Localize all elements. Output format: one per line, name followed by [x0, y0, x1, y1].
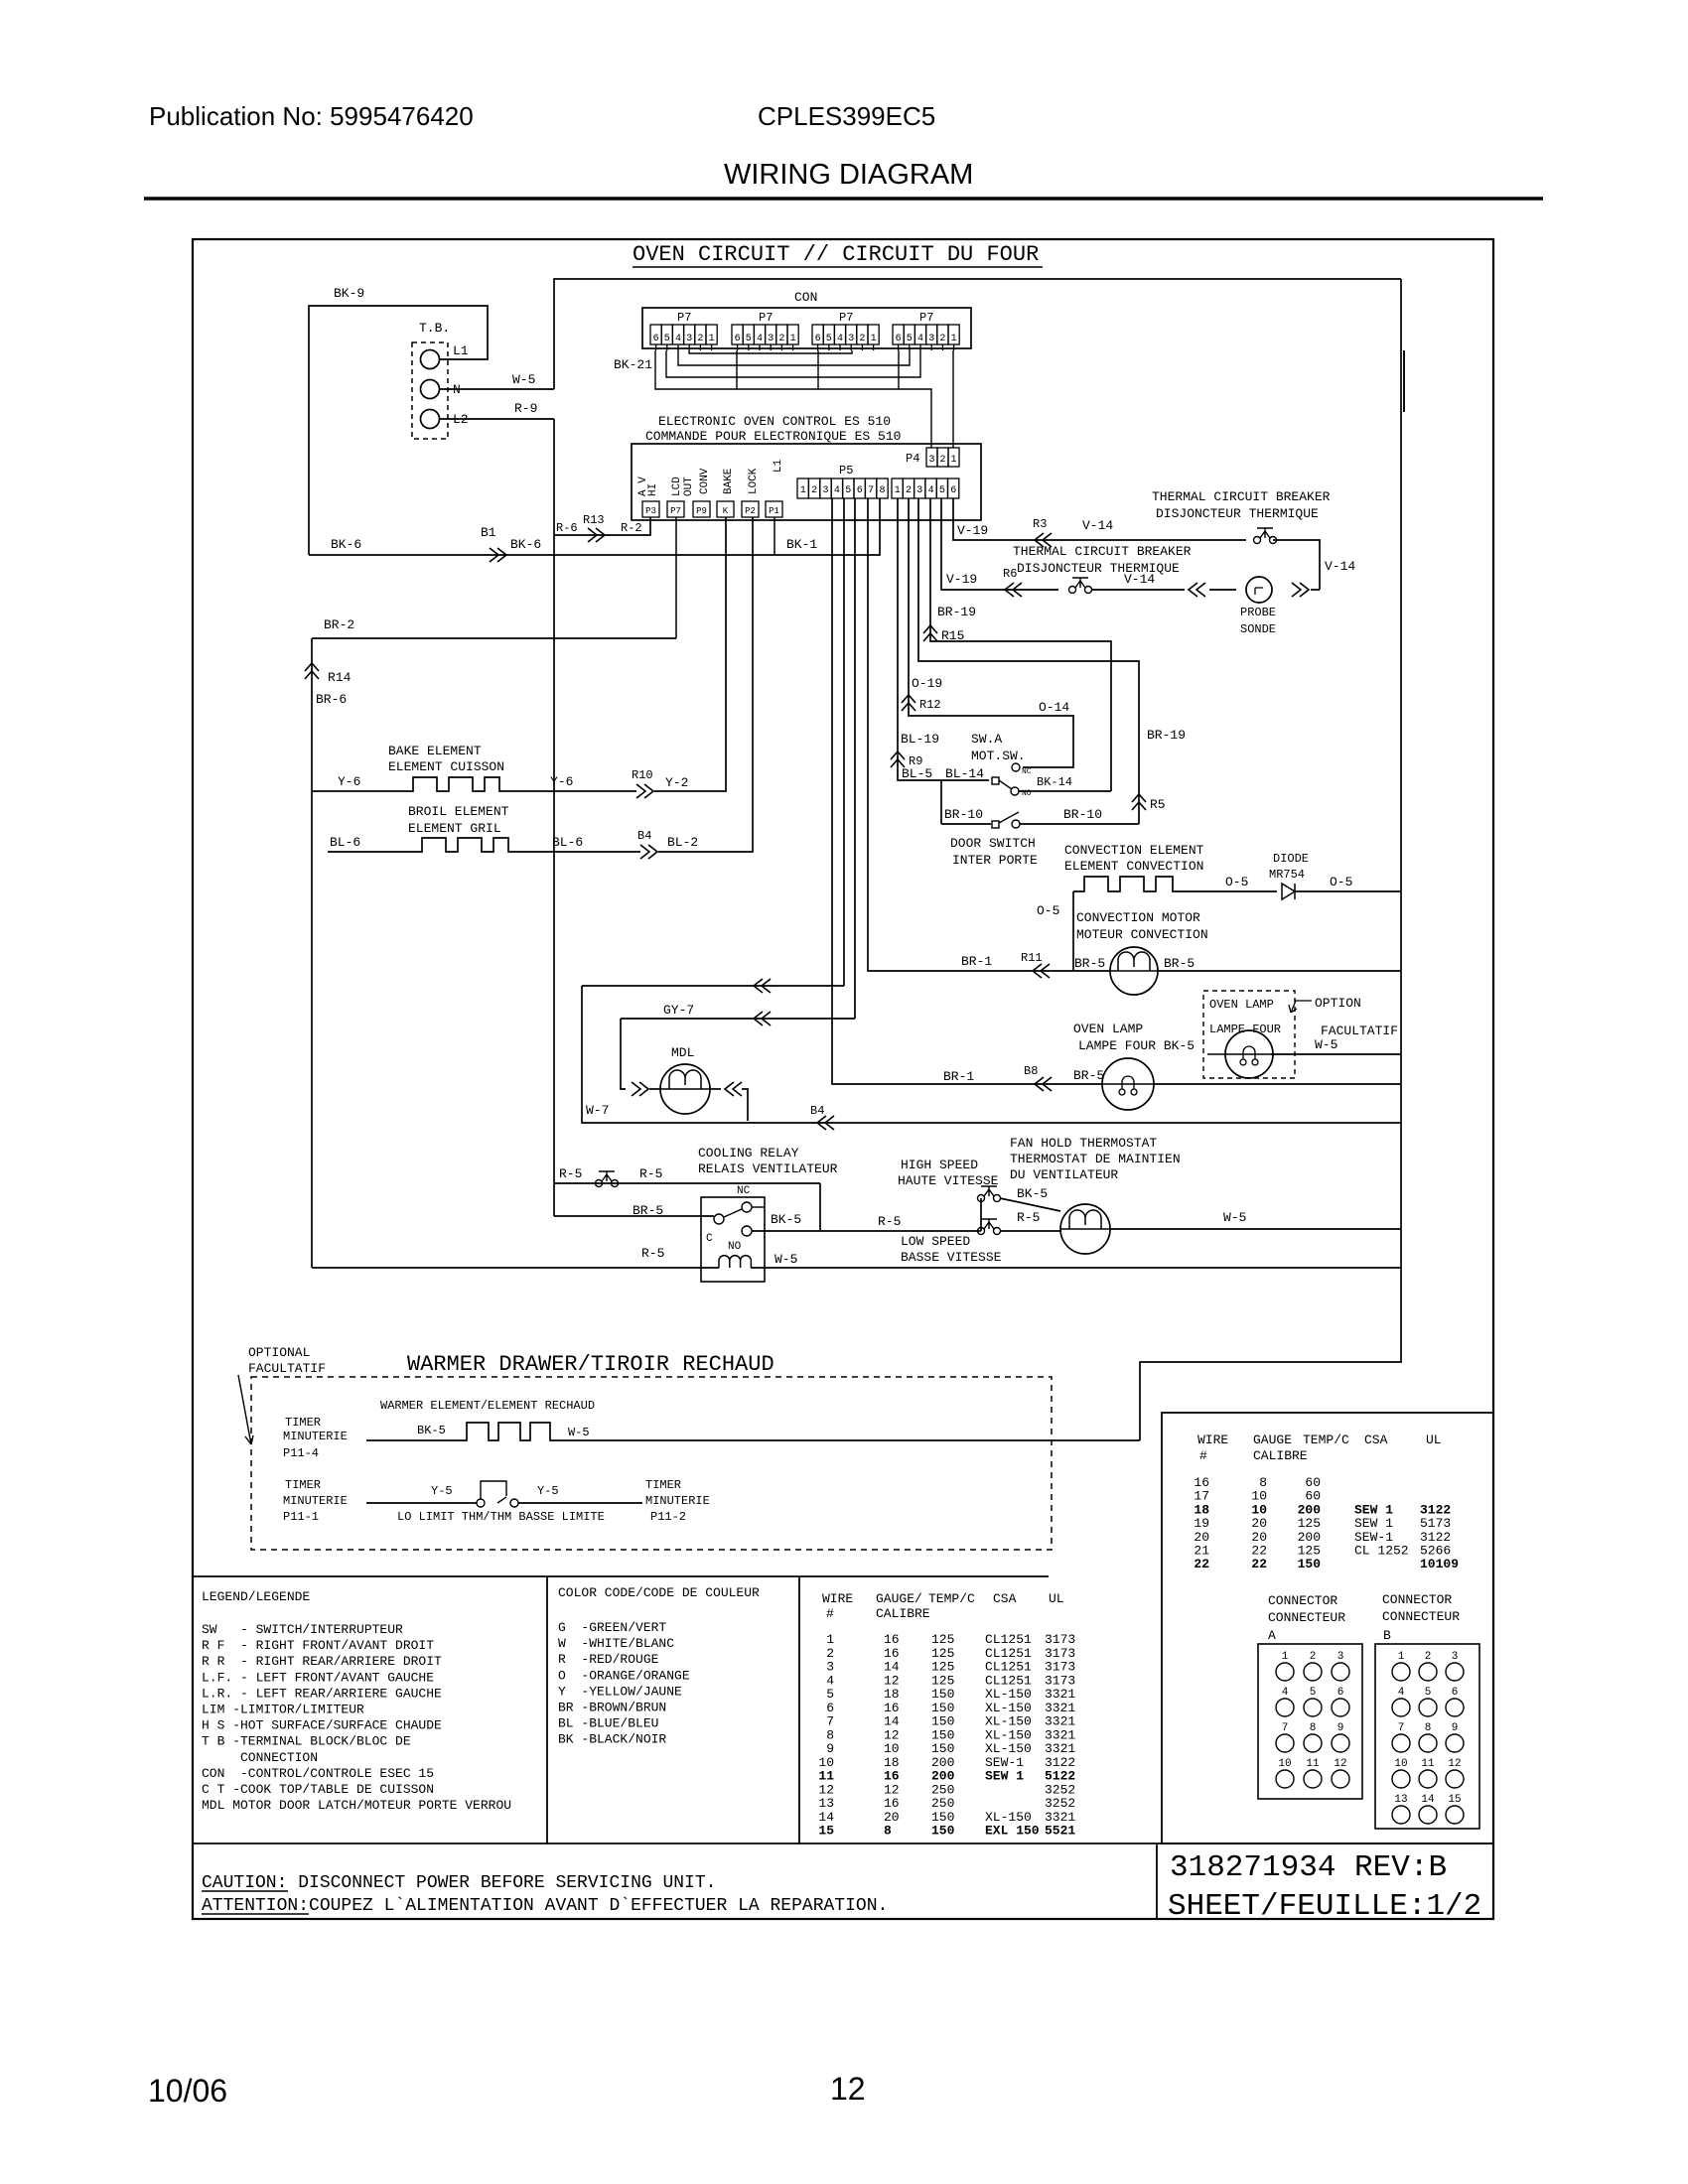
svg-text:14: 14: [1421, 1794, 1435, 1806]
svg-text:CONVECTION ELEMENT: CONVECTION ELEMENT: [1064, 843, 1204, 858]
CON harness bus 3: [666, 350, 920, 377]
svg-text:6: 6: [1337, 1687, 1344, 1699]
svg-text:INTER PORTE: INTER PORTE: [952, 853, 1038, 868]
svg-text:R5: R5: [1150, 797, 1166, 812]
warmer element resistor: [366, 1423, 1140, 1440]
svg-text:DISJONCTEUR THERMIQUE: DISJONCTEUR THERMIQUE: [1017, 561, 1180, 576]
svg-text:DIODE: DIODE: [1273, 852, 1309, 866]
svg-text:9: 9: [1337, 1722, 1344, 1734]
svg-text:H S -HOT SURFACE/SURFACE CHAUD: H S -HOT SURFACE/SURFACE CHAUDE: [202, 1718, 442, 1733]
svg-text:20: 20: [884, 1810, 900, 1825]
svg-text:BR-10: BR-10: [944, 807, 983, 822]
svg-text:BL-6: BL-6: [330, 835, 360, 850]
svg-text:BR-5: BR-5: [1164, 956, 1195, 971]
svg-text:L1: L1: [773, 459, 784, 473]
svg-text:BL-14: BL-14: [945, 766, 984, 781]
svg-text:R-5: R-5: [1017, 1210, 1040, 1225]
wire Y-2 to pin K: [654, 517, 726, 791]
svg-text:5: 5: [939, 485, 945, 496]
left rail x314 with splice R14: [311, 638, 313, 1268]
svg-text:B4: B4: [637, 829, 651, 843]
svg-text:T B -TERMINAL BLOCK/BLOC DE: T B -TERMINAL BLOCK/BLOC DE: [202, 1734, 411, 1749]
svg-text:G -GREEN/VERT: G -GREEN/VERT: [558, 1620, 666, 1635]
svg-text:BR-5: BR-5: [1074, 956, 1105, 971]
oven lamp DS1: [1102, 1058, 1154, 1110]
svg-text:P7: P7: [759, 311, 773, 325]
svg-text:1: 1: [790, 334, 796, 344]
CON harness drop to P4 pin1: [952, 350, 954, 448]
wire BL-2 to pin P2: [658, 517, 753, 852]
svg-text:5122: 5122: [1045, 1769, 1075, 1784]
svg-text:MOTEUR CONVECTION: MOTEUR CONVECTION: [1076, 927, 1208, 942]
svg-text:16: 16: [884, 1796, 900, 1811]
wire optional lamp to right rail: [1271, 1053, 1401, 1055]
svg-text:BK-9: BK-9: [334, 286, 364, 301]
svg-text:3: 3: [916, 485, 922, 496]
svg-text:CONNECTOR: CONNECTOR: [1268, 1593, 1337, 1608]
svg-text:12: 12: [830, 2071, 866, 2107]
svg-text:125: 125: [931, 1660, 954, 1675]
svg-text:BL-5: BL-5: [902, 766, 932, 781]
svg-text:200: 200: [931, 1769, 955, 1784]
svg-text:4: 4: [1282, 1687, 1289, 1699]
svg-text:6: 6: [815, 334, 821, 344]
switch SW.A: [992, 777, 999, 784]
svg-text:3: 3: [768, 334, 774, 344]
svg-text:L1: L1: [453, 343, 469, 358]
svg-text:200: 200: [931, 1755, 954, 1770]
svg-text:O-5: O-5: [1225, 875, 1248, 889]
svg-text:TIMER: TIMER: [285, 1416, 321, 1430]
wire thermostat to P11-2: [518, 1502, 642, 1504]
svg-text:3: 3: [826, 1660, 834, 1675]
svg-text:4: 4: [928, 485, 934, 496]
svg-text:LCD: LCD: [671, 477, 683, 496]
svg-text:LO LIMIT THM/THM BASSE LIMITE: LO LIMIT THM/THM BASSE LIMITE: [397, 1510, 605, 1524]
svg-text:O-5: O-5: [1330, 875, 1352, 889]
svg-text:9: 9: [826, 1741, 834, 1756]
svg-text:R13: R13: [583, 513, 605, 527]
svg-text:CONNECTOR: CONNECTOR: [1382, 1592, 1452, 1607]
svg-text:16: 16: [884, 1769, 900, 1784]
caution/sheet divider: [1156, 1843, 1158, 1919]
relay coil: [719, 1256, 751, 1268]
svg-text:8: 8: [879, 485, 885, 496]
svg-text:P3: P3: [645, 506, 656, 516]
svg-text:BK-5: BK-5: [771, 1212, 801, 1227]
svg-text:12: 12: [818, 1782, 834, 1797]
svg-text:BASSE VITESSE: BASSE VITESSE: [901, 1250, 1002, 1265]
svg-text:BR-1: BR-1: [961, 954, 992, 969]
svg-text:O-5: O-5: [1037, 903, 1059, 918]
convection motor M1: [1110, 947, 1158, 995]
svg-text:150: 150: [931, 1727, 954, 1742]
bake element resistor: [312, 777, 636, 791]
svg-text:B1: B1: [481, 525, 496, 540]
svg-text:14: 14: [884, 1660, 900, 1675]
svg-text:MDL: MDL: [671, 1045, 694, 1060]
svg-text:ATTENTION:COUPEZ L`ALIMENTATIO: ATTENTION:COUPEZ L`ALIMENTATION AVANT D`…: [202, 1896, 888, 1916]
svg-text:UL: UL: [1426, 1433, 1442, 1447]
svg-text:16: 16: [884, 1646, 900, 1661]
door switch: [941, 823, 991, 825]
svg-text:3: 3: [1452, 1651, 1459, 1663]
svg-text:OPTIONAL: OPTIONAL: [248, 1345, 310, 1360]
svg-text:L.F. - LEFT FRONT/AVANT GAUCHE: L.F. - LEFT FRONT/AVANT GAUCHE: [202, 1670, 434, 1685]
svg-text:W-5: W-5: [774, 1252, 797, 1267]
wire element left leg down: [1072, 891, 1074, 971]
svg-text:CL1251: CL1251: [985, 1632, 1032, 1647]
svg-text:18: 18: [884, 1687, 900, 1702]
svg-text:3321: 3321: [1045, 1741, 1075, 1756]
svg-text:B8: B8: [1024, 1064, 1038, 1078]
svg-text:W -WHITE/BLANC: W -WHITE/BLANC: [558, 1636, 674, 1651]
svg-text:T.B.: T.B.: [419, 321, 450, 336]
wire BL-5 branch to door switch: [940, 780, 942, 824]
svg-text:B: B: [1383, 1628, 1391, 1643]
svg-text:ELEMENT GRIL: ELEMENT GRIL: [408, 821, 501, 836]
wire R-9 from L2: [440, 418, 554, 420]
svg-text:10/06: 10/06: [148, 2073, 227, 2109]
svg-text:11: 11: [1421, 1758, 1435, 1770]
legend/color-code divider: [546, 1576, 548, 1843]
svg-text:150: 150: [931, 1824, 955, 1839]
svg-text:125: 125: [931, 1632, 954, 1647]
motor door latch MDL: [660, 1064, 710, 1114]
svg-text:XL-150: XL-150: [985, 1741, 1032, 1756]
svg-text:15: 15: [1448, 1794, 1461, 1806]
svg-text:OVEN LAMP: OVEN LAMP: [1073, 1022, 1143, 1036]
svg-text:BL -BLUE/BLEU: BL -BLUE/BLEU: [558, 1716, 658, 1731]
wire R-5 coil feed: [312, 1267, 719, 1269]
svg-text:BK-5: BK-5: [1017, 1186, 1048, 1201]
thermal circuit breaker CB1 switch: [1254, 537, 1261, 544]
svg-text:LOW SPEED: LOW SPEED: [901, 1234, 970, 1249]
svg-text:W-5: W-5: [512, 372, 535, 387]
wire R-5 fuse feed: [554, 1182, 820, 1184]
CON harness drop G2p1: [736, 350, 738, 389]
svg-text:22: 22: [1194, 1557, 1209, 1571]
svg-text:10: 10: [818, 1755, 834, 1770]
svg-text:COOLING RELAY: COOLING RELAY: [698, 1146, 799, 1160]
svg-text:R-5: R-5: [878, 1214, 901, 1229]
svg-text:2: 2: [1310, 1651, 1317, 1663]
svg-text:1: 1: [895, 485, 901, 496]
svg-text:1: 1: [871, 334, 877, 344]
svg-text:OVEN LAMP: OVEN LAMP: [1209, 998, 1274, 1012]
wire relay NO / BK-5: [752, 1230, 981, 1232]
svg-text:P4: P4: [906, 452, 919, 466]
svg-text:6: 6: [826, 1701, 834, 1715]
svg-text:V-19: V-19: [946, 572, 977, 587]
svg-text:6: 6: [1452, 1687, 1459, 1699]
svg-text:1: 1: [800, 485, 806, 496]
svg-text:16: 16: [884, 1632, 900, 1647]
svg-text:ELECTRONIC OVEN CONTROL ES 510: ELECTRONIC OVEN CONTROL ES 510: [658, 414, 891, 429]
wire fan to right rail W-5: [1110, 1228, 1401, 1230]
control pin box P7: [667, 501, 684, 517]
CON harness bus 4: [655, 350, 931, 448]
svg-text:250: 250: [931, 1796, 954, 1811]
wire W-5 from N to neutral riser: [440, 388, 554, 390]
svg-text:3321: 3321: [1045, 1727, 1075, 1742]
svg-text:1: 1: [1282, 1651, 1289, 1663]
wire W-5 coil out to right rail: [751, 1267, 1401, 1269]
svg-text:SEW-1: SEW-1: [985, 1755, 1024, 1770]
svg-text:GY-7: GY-7: [663, 1003, 694, 1018]
svg-text:3252: 3252: [1045, 1782, 1075, 1797]
svg-text:1: 1: [951, 334, 957, 344]
wire SW.A NO to riser BK-14: [1019, 790, 1111, 792]
svg-text:2: 2: [906, 485, 912, 496]
header rule: [144, 197, 1543, 201]
svg-text:3321: 3321: [1045, 1714, 1075, 1729]
svg-text:5: 5: [664, 334, 670, 344]
svg-text:3173: 3173: [1045, 1632, 1075, 1647]
svg-text:2: 2: [859, 334, 865, 344]
svg-text:5: 5: [845, 485, 851, 496]
svg-text:LOCK: LOCK: [748, 468, 760, 494]
svg-text:22: 22: [1251, 1557, 1267, 1571]
svg-text:4: 4: [757, 334, 763, 344]
wire probe to riser: [1311, 589, 1320, 591]
svg-text:WARMER ELEMENT/ELEMENT RECHAUD: WARMER ELEMENT/ELEMENT RECHAUD: [380, 1399, 595, 1413]
svg-text:MINUTERIE: MINUTERIE: [283, 1494, 348, 1508]
svg-text:O -ORANGE/ORANGE: O -ORANGE/ORANGE: [558, 1668, 690, 1683]
svg-text:HIGH SPEED: HIGH SPEED: [901, 1158, 978, 1172]
svg-text:2: 2: [1425, 1651, 1432, 1663]
svg-text:3321: 3321: [1045, 1701, 1075, 1715]
svg-text:12: 12: [884, 1673, 900, 1688]
svg-text:P11-2: P11-2: [650, 1510, 686, 1524]
svg-text:BR-19: BR-19: [1147, 728, 1186, 743]
svg-text:XL-150: XL-150: [985, 1714, 1032, 1729]
wire fuse to NO bus: [819, 1183, 821, 1230]
wire BL-19 pin9: [898, 498, 989, 780]
svg-text:P7: P7: [677, 311, 691, 325]
svg-text:13: 13: [818, 1796, 834, 1811]
svg-text:7: 7: [1282, 1722, 1289, 1734]
splice R3 on V wire 1: [1035, 533, 1052, 547]
svg-text:XL-150: XL-150: [985, 1810, 1032, 1825]
svg-text:R3: R3: [1033, 517, 1047, 531]
svg-text:5: 5: [907, 334, 913, 344]
svg-text:2: 2: [811, 485, 817, 496]
svg-text:#: #: [1199, 1448, 1207, 1463]
svg-text:1: 1: [709, 334, 715, 344]
svg-text:BL-2: BL-2: [667, 835, 698, 850]
svg-text:XL-150: XL-150: [985, 1701, 1032, 1715]
wire MDL left lead: [621, 1019, 626, 1089]
wire MDL right lead to bottom rail: [710, 1088, 721, 1090]
line riser x558: [553, 419, 555, 1216]
svg-text:8: 8: [826, 1727, 834, 1742]
svg-text:NO: NO: [728, 1241, 742, 1253]
svg-text:W-5: W-5: [568, 1426, 590, 1439]
right info box border: [1162, 1413, 1493, 1843]
svg-text:12: 12: [884, 1727, 900, 1742]
svg-text:11: 11: [818, 1769, 834, 1784]
CON harness drop G3p6: [817, 350, 819, 389]
svg-text:DU VENTILATEUR: DU VENTILATEUR: [1010, 1167, 1118, 1182]
svg-text:V-19: V-19: [957, 523, 988, 538]
svg-text:LIM -LIMITOR/LIMITEUR: LIM -LIMITOR/LIMITEUR: [202, 1703, 364, 1717]
svg-text:12: 12: [1448, 1758, 1461, 1770]
svg-text:CONNECTEUR: CONNECTEUR: [1382, 1609, 1460, 1624]
connector A: [1258, 1644, 1362, 1799]
svg-text:10: 10: [884, 1741, 900, 1756]
svg-text:13: 13: [1394, 1794, 1407, 1806]
svg-text:14: 14: [884, 1714, 900, 1729]
svg-text:V-14: V-14: [1325, 559, 1355, 574]
wire high speed to fan: [1000, 1198, 1060, 1211]
svg-text:MINUTERIE: MINUTERIE: [283, 1430, 348, 1443]
svg-text:BAKE ELEMENT: BAKE ELEMENT: [388, 744, 482, 758]
svg-text:10: 10: [1394, 1758, 1407, 1770]
wire CB2 to probe: [1091, 589, 1185, 591]
svg-text:NC: NC: [737, 1185, 751, 1197]
wire BR-19 pin12 to SW.A: [930, 498, 1111, 791]
svg-text:R-5: R-5: [559, 1166, 582, 1181]
svg-text:UL: UL: [1049, 1591, 1064, 1606]
svg-text:GAUGE/: GAUGE/: [876, 1591, 922, 1606]
svg-text:150: 150: [931, 1810, 954, 1825]
svg-text:V-14: V-14: [1124, 572, 1155, 587]
svg-text:O-14: O-14: [1039, 700, 1069, 715]
svg-text:WIRING DIAGRAM: WIRING DIAGRAM: [724, 159, 973, 191]
svg-text:3: 3: [928, 334, 934, 344]
svg-text:5: 5: [1310, 1687, 1317, 1699]
svg-text:B4: B4: [810, 1104, 824, 1118]
svg-text:4: 4: [837, 334, 843, 344]
svg-text:7: 7: [1398, 1722, 1405, 1734]
cooling relay K1 box: [701, 1197, 765, 1282]
svg-text:OUT: OUT: [683, 477, 695, 496]
svg-text:150: 150: [931, 1714, 954, 1729]
svg-text:#: #: [826, 1606, 834, 1621]
svg-text:LAMPE FOUR BK-5: LAMPE FOUR BK-5: [1078, 1038, 1195, 1053]
control pin box P3: [642, 501, 659, 517]
svg-text:GAUGE: GAUGE: [1253, 1433, 1292, 1447]
convection element resistor: [1073, 877, 1277, 891]
svg-text:W-5: W-5: [1315, 1037, 1337, 1052]
svg-text:R-9: R-9: [514, 401, 537, 416]
wire A pin5 return: [843, 498, 845, 986]
svg-text:FACULTATIF: FACULTATIF: [248, 1361, 326, 1376]
svg-text:R11: R11: [1021, 951, 1043, 965]
svg-text:THERMAL CIRCUIT BREAKER: THERMAL CIRCUIT BREAKER: [1152, 489, 1331, 504]
svg-text:12: 12: [884, 1782, 900, 1797]
svg-text:P2: P2: [745, 506, 756, 516]
wire lamp to right rail: [1154, 1083, 1401, 1085]
svg-text:4: 4: [917, 334, 923, 344]
svg-text:11: 11: [1306, 1758, 1320, 1770]
splice R5 on riser: [1132, 794, 1146, 810]
svg-text:O-19: O-19: [912, 676, 942, 691]
svg-text:CL1251: CL1251: [985, 1660, 1032, 1675]
splice B4 on broil wire: [640, 845, 657, 859]
control pin box P9: [693, 501, 710, 517]
svg-text:7: 7: [826, 1714, 834, 1729]
wire lamp feed pin4: [832, 498, 1102, 1084]
wire BR-19 pin11 to door switch: [918, 498, 1139, 824]
svg-text:6: 6: [653, 334, 659, 344]
svg-text:18: 18: [884, 1755, 900, 1770]
svg-text:8: 8: [1425, 1722, 1432, 1734]
color-code/gauge divider: [798, 1576, 800, 1843]
svg-text:W-5: W-5: [1223, 1210, 1246, 1225]
fan motor M2: [1060, 1204, 1110, 1254]
warmer thermostat wire: [366, 1502, 477, 1504]
svg-text:R6: R6: [1003, 567, 1017, 581]
wire door switch to riser: [1020, 823, 1139, 825]
svg-text:CAUTION: DISCONNECT POWER BEFO: CAUTION: DISCONNECT POWER BEFORE SERVICI…: [202, 1873, 716, 1893]
svg-text:3173: 3173: [1045, 1660, 1075, 1675]
svg-text:BR-10: BR-10: [1063, 807, 1102, 822]
wire BK-6 / BK-1 rail: [309, 498, 880, 555]
splice on probe right: [1292, 583, 1309, 597]
svg-text:XL-150: XL-150: [985, 1687, 1032, 1702]
svg-text:R15: R15: [941, 628, 964, 643]
svg-text:BR-6: BR-6: [316, 692, 347, 707]
svg-text:SONDE: SONDE: [1240, 622, 1276, 636]
svg-text:V-14: V-14: [1082, 518, 1113, 533]
svg-text:THERMAL CIRCUIT BREAKER: THERMAL CIRCUIT BREAKER: [1013, 544, 1192, 559]
svg-text:BK-6: BK-6: [331, 537, 361, 552]
svg-text:P7: P7: [670, 506, 681, 516]
svg-text:LEGEND/LEGENDE: LEGEND/LEGENDE: [202, 1589, 310, 1604]
svg-text:250: 250: [931, 1782, 954, 1797]
diode MR754: [1282, 884, 1295, 899]
svg-text:RELAIS VENTILATEUR: RELAIS VENTILATEUR: [698, 1161, 838, 1176]
svg-text:3: 3: [1337, 1651, 1344, 1663]
svg-text:CON -CONTROL/CONTROLE ESEC 15: CON -CONTROL/CONTROLE ESEC 15: [202, 1766, 434, 1781]
thermal circuit breaker CB2 switch: [1069, 587, 1076, 594]
wire GY-7 pin6 to MDL: [854, 498, 856, 1019]
wire low speed to fan: [1000, 1230, 1060, 1232]
main border frame: [193, 239, 1493, 1919]
svg-text:3321: 3321: [1045, 1687, 1075, 1702]
svg-text:5: 5: [746, 334, 752, 344]
high speed switch: [978, 1195, 985, 1202]
CON harness bus 1: [689, 350, 852, 353]
svg-text:OVEN CIRCUIT // CIRCUIT DU FOU: OVEN CIRCUIT // CIRCUIT DU FOUR: [633, 242, 1039, 267]
svg-text:150: 150: [931, 1687, 954, 1702]
svg-text:BL-6: BL-6: [552, 835, 583, 850]
svg-text:C: C: [706, 1233, 713, 1245]
svg-text:R-2: R-2: [621, 521, 642, 535]
svg-text:2: 2: [939, 455, 945, 466]
svg-text:3122: 3122: [1045, 1755, 1075, 1770]
svg-text:BR-1: BR-1: [943, 1069, 974, 1084]
svg-text:1: 1: [826, 1632, 834, 1647]
svg-text:Y-6: Y-6: [338, 774, 360, 789]
svg-text:TIMER: TIMER: [285, 1478, 321, 1492]
wire P7 box drop to BR-2: [675, 517, 677, 638]
svg-text:7: 7: [868, 485, 874, 496]
svg-text:Y-6: Y-6: [550, 774, 573, 789]
svg-text:COLOR CODE/CODE DE COULEUR: COLOR CODE/CODE DE COULEUR: [558, 1585, 760, 1600]
wire BR-5 to relay common: [554, 1215, 714, 1217]
svg-text:P1: P1: [769, 506, 779, 516]
svg-text:3: 3: [686, 334, 692, 344]
wire V-19 pin14 drop: [953, 498, 1246, 540]
CON connector box: [642, 308, 971, 348]
svg-text:125: 125: [931, 1646, 954, 1661]
splice B4 on lower rail: [817, 1116, 834, 1130]
svg-text:150: 150: [1298, 1557, 1322, 1571]
svg-text:BK-5: BK-5: [417, 1424, 446, 1437]
